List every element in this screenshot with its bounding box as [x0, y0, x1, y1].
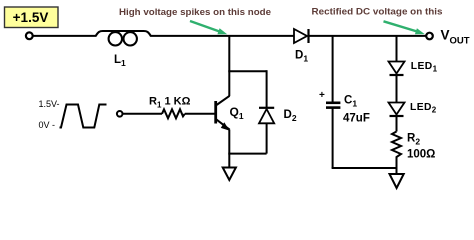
wire LED2 to R2: [396, 116, 398, 132]
diode D2: [259, 108, 274, 124]
Vout terminal circle: [426, 33, 433, 40]
wire D1 to Vout: [309, 35, 427, 37]
resistor R2: [392, 132, 401, 161]
svg-text:+1.5V: +1.5V: [13, 10, 49, 25]
input waveform: [60, 105, 107, 128]
wire inductor to D1: [151, 35, 295, 37]
wire D2 bottom return: [266, 123, 268, 153]
svg-text:0V -: 0V -: [39, 120, 56, 130]
svg-text:1.5V-: 1.5V-: [39, 99, 60, 109]
inductor L1: [96, 31, 152, 46]
emitter wire down: [228, 130, 230, 168]
transistor Q1: [216, 96, 230, 131]
svg-text:High voltage spikes on this no: High voltage spikes on this node: [119, 7, 271, 18]
LED branch wire top: [396, 35, 398, 62]
wire collector branch to D2: [228, 70, 266, 72]
resistor R1: [162, 109, 185, 118]
input terminal circle: [117, 111, 123, 117]
supply label box +1.5V: [5, 7, 59, 28]
source terminal circle: [26, 32, 33, 39]
wire LED1 to LED2: [396, 75, 398, 103]
LED1: [389, 62, 405, 76]
svg-text:+: +: [319, 90, 325, 101]
bottom rail: [332, 167, 398, 169]
green arrow 1: [190, 21, 227, 34]
wire R1 to Q1 base: [185, 113, 215, 115]
capacitor C1 branch wire top: [332, 35, 334, 102]
ground (emitter): [223, 168, 236, 181]
svg-text:100Ω: 100Ω: [407, 149, 435, 161]
ground (R2): [390, 174, 404, 188]
wire R2 to ground: [396, 160, 398, 174]
svg-text:47uF: 47uF: [343, 113, 370, 125]
LED2: [389, 103, 405, 117]
node drop wire (collector column top): [228, 35, 230, 96]
capacitor bottom wire: [332, 108, 334, 168]
wire D2 top: [266, 70, 268, 107]
svg-text:R1 1 KΩ: R1 1 KΩ: [149, 96, 191, 110]
wire source to inductor: [33, 35, 96, 37]
svg-text:Rectified DC voltage on this: Rectified DC voltage on this: [312, 6, 443, 17]
diode D1: [294, 29, 309, 43]
green arrow 2: [384, 21, 425, 34]
capacitor C1: [326, 103, 340, 108]
wire input to R1: [123, 113, 162, 115]
